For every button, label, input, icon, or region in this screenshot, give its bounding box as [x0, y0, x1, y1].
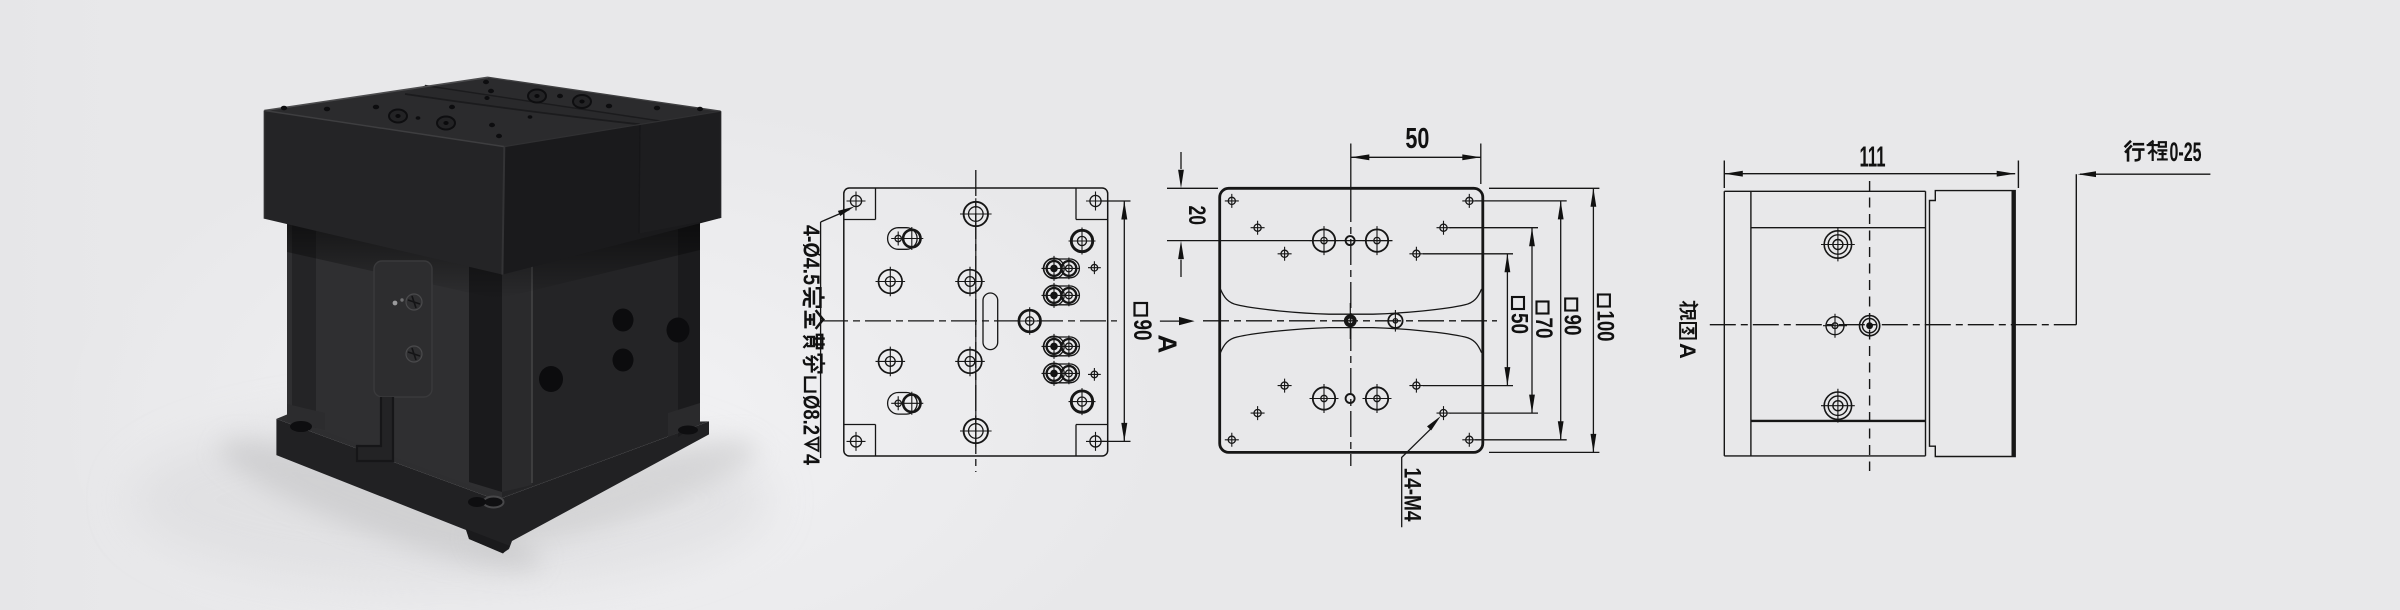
view1 corner hole BL: [847, 432, 866, 451]
front corner groove right half: [502, 264, 532, 492]
svg-text:50: 50: [1405, 123, 1429, 155]
dim 90 extension line bottom: [1101, 440, 1131, 442]
hole callout arrow: [838, 207, 855, 217]
dim sq90 text: [1559, 299, 1586, 336]
top plate front-left face: [264, 111, 504, 275]
right face hole B: [667, 318, 690, 343]
flange corner notch left: [287, 404, 325, 430]
L-shaped slot on left face: [357, 397, 393, 461]
section arrow A line: [1160, 320, 1181, 322]
dim sq50 extensions: [1423, 254, 1513, 386]
view1 double counterbore group 2: [1042, 283, 1080, 308]
view1 mid hole L-upper: [876, 267, 906, 297]
view2 M4 hole r70 BR: [1437, 406, 1451, 420]
left face service panel: [374, 261, 432, 397]
view1 corner relief TL: [844, 188, 876, 220]
view1 double counterbore group 1: [1042, 256, 1080, 281]
callout 14-M4 text: [1399, 468, 1426, 522]
view1 mid hole C-upper: [955, 267, 985, 297]
flange slot hole right: [678, 426, 698, 435]
plate right corner edge: [720, 111, 722, 218]
top edge bevel left-back: [264, 77, 488, 110]
dim 20 text: [1183, 206, 1210, 226]
view1 horizontal centerline: [822, 320, 1117, 322]
view3 counterbore top: [1821, 228, 1855, 262]
groove edge highlight: [531, 264, 533, 483]
dim sq50 line: [1506, 254, 1508, 386]
svg-text:A: A: [1675, 343, 1700, 359]
view3 body right edge bold: [2012, 191, 2015, 457]
dim sq90 extensions: [1475, 201, 1566, 440]
view1 mid hole C-lower: [955, 347, 985, 377]
svg-text:20: 20: [1183, 206, 1210, 226]
view1 corner relief TR: [1076, 188, 1108, 220]
dim 90 arrow top: [1121, 201, 1127, 220]
top edge bevel front-right: [504, 111, 720, 146]
section arrow A head: [1179, 317, 1195, 325]
base left face: [287, 222, 502, 498]
view2 small hole top-center: [1346, 236, 1355, 245]
view1 vertical line through center holes: [975, 214, 977, 431]
flange top strip right: [497, 421, 709, 500]
right face hole A: [613, 309, 634, 332]
view2 corner hole TL: [1225, 194, 1239, 208]
dim sq70 text: [1530, 302, 1557, 339]
base flange silhouette: [276, 419, 709, 553]
view1 plate outline: [844, 188, 1108, 456]
right face hole D: [539, 366, 563, 392]
view2 M4 hole r50 BR: [1409, 379, 1423, 393]
view2 big hole top-left: [1310, 226, 1339, 255]
dim 111 extension lines: [1724, 161, 2018, 189]
top face small holes: [281, 80, 703, 138]
view1 corner hole TL: [847, 192, 866, 211]
view label A: [1675, 302, 1700, 359]
flange slot hole left: [290, 421, 312, 432]
top plate front-right face right segment: [639, 111, 721, 233]
svg-text:90: 90: [1559, 315, 1586, 336]
dim 90 text: [1128, 303, 1156, 341]
seam line 1: [405, 94, 640, 124]
view1 slotted counterbore lower-left: [888, 392, 924, 415]
view3 counterbore bottom: [1821, 389, 1855, 423]
svg-text:100: 100: [1591, 311, 1618, 342]
soft studio glow around product: [60, 90, 1180, 610]
dim 90 arrow bottom: [1121, 423, 1127, 442]
svg-text:70: 70: [1530, 318, 1557, 339]
view1 double counterbore group 3: [1042, 334, 1080, 359]
view1 bottom center hole: [960, 415, 992, 447]
view1 corner hole BR: [1086, 432, 1105, 451]
svg-text:0-25: 0-25: [2170, 137, 2202, 167]
view3 bottom edge: [1724, 455, 1925, 457]
view2 upper flexure curve: [1220, 289, 1481, 314]
dim 90 extension line top: [1101, 200, 1131, 202]
view3 inner top line: [1751, 227, 1926, 229]
view2 M4 hole r50 BL: [1278, 379, 1292, 393]
view1 corner hole TR: [1086, 192, 1105, 211]
view1 small hole upper-right: [1088, 261, 1101, 274]
seam line 2: [425, 86, 660, 122]
dim 20 arrows: [1180, 152, 1182, 277]
ground shadow: [130, 410, 770, 591]
dim sq90 line: [1560, 201, 1562, 440]
svg-text:4-Ø4.5: 4-Ø4.5: [799, 225, 825, 285]
view2 small hole bottom-center: [1346, 394, 1355, 403]
svg-text:50: 50: [1506, 313, 1533, 334]
face split line: [639, 124, 640, 233]
view2 M4 hole r70 TR: [1437, 221, 1451, 235]
top edge bevel left-front: [264, 111, 504, 147]
view2 big hole bottom-left: [1310, 384, 1339, 413]
top face seam strip: [405, 86, 660, 125]
shadow of top plate on base right: [502, 220, 700, 298]
flange front foot: [466, 529, 510, 554]
view3 inner bottom line: [1751, 420, 1926, 422]
plate front corner edge: [502, 147, 504, 275]
view1 counterbore hole upper-right: [1069, 228, 1096, 255]
travel callout arrow: [2078, 171, 2097, 177]
dim 50 arrows: [1351, 154, 1370, 160]
dim 50 extension lines: [1480, 144, 1482, 185]
view1 double counterbore group 4: [1042, 361, 1080, 386]
top face ring hole 1: [389, 110, 407, 123]
view2 corner hole BR: [1462, 433, 1476, 447]
view3 body block outline: [1930, 191, 2016, 457]
view2 M4 hole r50 TR: [1409, 247, 1423, 261]
groove bottom counterbore ring: [484, 497, 504, 508]
view1 corner relief BL: [844, 425, 876, 457]
svg-text:14-M4: 14-M4: [1399, 468, 1426, 522]
base right face: [502, 220, 700, 497]
view2 corner hole TR: [1462, 194, 1476, 208]
top face ring hole 3: [528, 90, 546, 103]
view1 center bold hole: [1016, 307, 1043, 334]
view2 big hole top-right: [1363, 226, 1392, 255]
view2 center pivot hole: [1346, 303, 1355, 339]
top face ring hole 4: [573, 95, 591, 108]
dim sq50 text: [1506, 297, 1533, 334]
view1 mid hole L-lower: [876, 347, 906, 377]
view2 vertical centerline: [1350, 196, 1352, 466]
view2 corner hole BL: [1225, 433, 1239, 447]
view1 center slot: [983, 293, 998, 350]
view2 M4 hole r50 TL: [1278, 247, 1292, 261]
svg-text:A: A: [1153, 335, 1183, 354]
dim 90 dimension line: [1123, 201, 1125, 441]
callout 14-M4 leader: [1402, 428, 1432, 527]
travel callout text stroke 0-25: [2126, 137, 2202, 167]
view2 horizontal centerline: [1203, 320, 1497, 322]
flange corner notch right: [668, 403, 700, 437]
travel callout tail: [2080, 173, 2210, 175]
view3 vertical centerline: [1869, 181, 1871, 471]
view1 top center hole: [960, 198, 992, 230]
view3 horizontal centerline: [1710, 324, 2077, 326]
panel screw 2: [406, 346, 422, 362]
travel callout vertical line: [2075, 174, 2077, 325]
svg-text:90: 90: [1128, 320, 1156, 341]
dim 111 arrows: [1724, 171, 1743, 177]
view3 left strip right edge: [1750, 191, 1752, 456]
view3 table right edge: [1925, 191, 1927, 456]
view2 lower flexure curve: [1220, 328, 1481, 353]
dim sq100 extensions: [1489, 188, 1599, 452]
front corner groove left half: [469, 264, 502, 492]
view2 plate outline: [1220, 188, 1483, 452]
top plate top face: [264, 77, 720, 146]
left face corner groove: [292, 224, 316, 428]
view2 hole right of center: [1388, 310, 1402, 332]
base flange side faces: [276, 415, 502, 501]
view3 left strip left edge: [1723, 191, 1725, 456]
plate left corner edge: [263, 111, 265, 219]
dim sq100 line: [1592, 188, 1594, 452]
section label A: [1153, 335, 1183, 354]
panel indicator dots: [393, 298, 404, 305]
top plate front-right face: [502, 111, 720, 274]
right face right-edge band: [678, 220, 700, 437]
callout 14-M4 arrow: [1427, 416, 1441, 430]
view1 counterbore hole lower-right: [1069, 388, 1096, 415]
shadow of top plate on base left: [287, 222, 502, 300]
dim 20 extension top: [1167, 187, 1218, 189]
dim sq70 extensions: [1450, 228, 1539, 413]
svg-text:Ø8.2: Ø8.2: [799, 395, 825, 435]
view2 M4 hole r70 BL: [1251, 406, 1265, 420]
view3 center hole left: [1823, 314, 1847, 338]
view1 corner relief BR: [1076, 425, 1108, 457]
view1 vertical centerline: [975, 170, 977, 472]
dim 50 dimension line: [1351, 156, 1481, 158]
svg-text:111: 111: [1860, 142, 1886, 174]
hole callout leader line: [821, 210, 850, 459]
svg-text:4: 4: [799, 454, 825, 465]
panel screw 1: [406, 294, 422, 310]
top edge bevel back-right: [488, 77, 721, 111]
top face ring hole 2: [437, 117, 455, 130]
view3 center hole right: [1860, 316, 1880, 336]
dim 111 line: [1724, 173, 2015, 175]
view2 M4 hole r70 TL: [1251, 221, 1265, 235]
view3 top edge: [1724, 190, 1925, 192]
right face hole C: [613, 349, 634, 372]
dim sq100 text: [1591, 295, 1618, 342]
view2 big hole bottom-right: [1363, 384, 1392, 413]
view1 small hole lower-right: [1088, 368, 1101, 381]
flange slot hole front: [468, 497, 486, 507]
hole callout text 4-d4.5 thru cbore d8.2 depth4: [799, 225, 825, 465]
view2 row line through upper big holes: [1167, 240, 1393, 242]
view1 slotted counterbore upper-left: [888, 227, 924, 250]
dim sq70 line: [1531, 228, 1533, 413]
